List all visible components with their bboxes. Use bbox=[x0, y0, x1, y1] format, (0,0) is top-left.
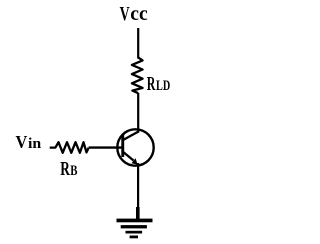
svg-text:V: V bbox=[16, 132, 28, 152]
wire RLD to transistor collector bbox=[137, 93, 139, 133]
node Vin label bbox=[16, 132, 42, 152]
ground bbox=[117, 219, 153, 239]
resistor RB bbox=[50, 142, 89, 153]
wire transistor emitter to ground bbox=[137, 163, 140, 220]
svg-text:V: V bbox=[120, 3, 130, 25]
node Vcc label bbox=[120, 3, 148, 25]
resistor RLD bbox=[132, 58, 143, 94]
svg-text:R: R bbox=[147, 73, 156, 95]
transistor Q1 bbox=[117, 129, 153, 165]
svg-text:LD: LD bbox=[156, 78, 170, 94]
svg-text:R: R bbox=[60, 158, 70, 180]
resistor RLD value label bbox=[147, 73, 171, 95]
svg-text:B: B bbox=[70, 163, 78, 179]
wire RB to transistor base bbox=[89, 146, 122, 148]
svg-text:in: in bbox=[28, 136, 42, 152]
resistor RB value label bbox=[60, 158, 78, 180]
wire Vcc to resistor RLD bbox=[137, 28, 139, 59]
svg-text:cc: cc bbox=[130, 4, 148, 25]
